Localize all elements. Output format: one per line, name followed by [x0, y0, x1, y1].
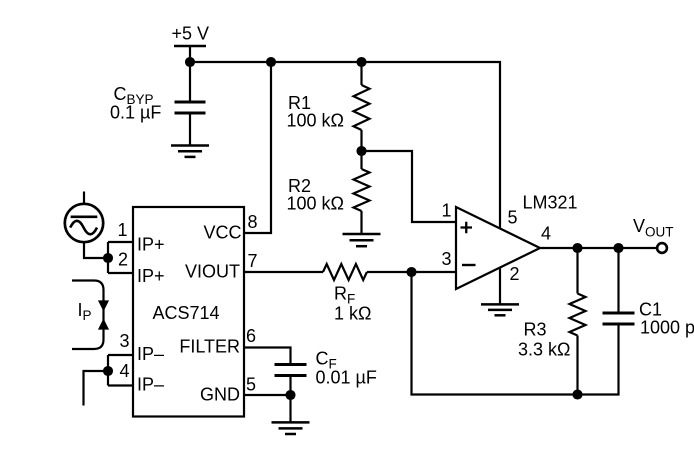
svg-text:5: 5 — [246, 375, 256, 395]
svg-text:IP–: IP– — [137, 344, 164, 364]
wire op-amp V- to ground — [499, 268, 501, 305]
node junction dot rail at R1 — [356, 57, 366, 67]
svg-text:3: 3 — [441, 249, 451, 269]
svg-text:7: 7 — [248, 251, 258, 271]
svg-text:3: 3 — [119, 331, 129, 351]
wire source to IP+ pins — [84, 242, 108, 258]
svg-text:C1: C1 — [639, 300, 662, 320]
wire IP- bus — [107, 355, 109, 386]
wire feedback rail from inverting node to C1 — [412, 272, 619, 395]
op-amp + input marker — [461, 222, 473, 234]
op-amp - input marker — [462, 264, 476, 266]
svg-text:ACS714: ACS714 — [153, 303, 220, 323]
ground below R2 — [343, 234, 381, 246]
IC ACS714 body — [133, 207, 244, 417]
ground below C_BYP — [171, 146, 209, 157]
resistor R3 — [570, 294, 586, 336]
resistor R1 — [354, 85, 370, 130]
node junction dot R1/R2 midpoint — [356, 146, 366, 156]
node junction dot IP+ tie — [103, 253, 113, 263]
wire RF to inverting node — [367, 271, 456, 273]
svg-text:1: 1 — [441, 201, 451, 221]
capacitor C_BYP — [175, 102, 206, 113]
node junction dot output/C1 — [613, 243, 623, 253]
wire output to R3 — [576, 248, 578, 294]
svg-text:0.1 µF: 0.1 µF — [110, 103, 161, 123]
svg-text:8: 8 — [248, 212, 258, 232]
wire rail to C_BYP top plate — [189, 62, 191, 101]
node junction dot rail at C_BYP — [185, 57, 195, 67]
svg-text:4: 4 — [541, 224, 551, 244]
wire I_P loop — [72, 281, 104, 350]
source symbol circle — [65, 204, 103, 242]
op-amp U1 LM321 triangle — [456, 207, 540, 289]
wire GND to ground symbol — [289, 395, 291, 422]
node VOUT terminal — [657, 243, 667, 253]
wire op-amp output to VOUT terminal — [540, 247, 657, 249]
wire C_BYP bottom plate to ground — [189, 115, 191, 146]
wire IP- return stub — [84, 371, 109, 406]
wire pin 7 VIOUT to RF — [244, 271, 323, 273]
svg-text:100 kΩ: 100 kΩ — [287, 111, 345, 131]
node junction dot IP- tie — [103, 366, 113, 376]
resistor RF — [323, 264, 367, 280]
svg-text:IP+: IP+ — [137, 235, 165, 255]
svg-text:R3: R3 — [524, 320, 547, 340]
source internal bar — [71, 215, 98, 218]
wire pin 2 — [108, 272, 133, 274]
svg-text:1: 1 — [117, 220, 127, 240]
svg-text:FILTER: FILTER — [179, 337, 240, 357]
node junction dot GND/CF — [285, 390, 295, 400]
node +5V supply bar — [174, 45, 206, 48]
node junction dot output/R3 — [572, 243, 582, 253]
wire stub above source — [83, 192, 85, 205]
svg-text:1 kΩ: 1 kΩ — [334, 304, 371, 324]
arrow I_P up — [99, 319, 109, 329]
svg-text:GND: GND — [200, 385, 240, 405]
svg-text:6: 6 — [246, 326, 256, 346]
svg-text:100 kΩ: 100 kΩ — [287, 194, 345, 214]
wire midpoint to R2 — [360, 151, 362, 169]
svg-text:2: 2 — [510, 264, 520, 284]
wire R3 to feedback rail — [576, 336, 578, 395]
svg-text:+5 V: +5 V — [172, 24, 210, 44]
svg-text:5: 5 — [508, 208, 518, 228]
svg-text:1000 pF: 1000 pF — [640, 318, 694, 338]
wire supply bar to rail — [189, 46, 191, 62]
svg-text:IP–: IP– — [137, 375, 164, 395]
capacitor CF — [275, 365, 307, 376]
ground below ACS714 GND — [272, 422, 310, 434]
svg-text:2: 2 — [118, 250, 128, 270]
node junction dot inverting input — [406, 267, 416, 277]
node junction dot R3/feedback — [572, 389, 582, 399]
source internal sine — [70, 221, 97, 235]
svg-text:IP+: IP+ — [137, 266, 165, 286]
wire pin 5 GND — [244, 394, 291, 396]
wire pin 1 — [108, 241, 133, 243]
wire VCC pin 8 to rail — [244, 62, 271, 233]
svg-text:LM321: LM321 — [523, 193, 578, 213]
ground below op-amp — [481, 304, 519, 315]
node junction dot rail at VCC drop — [266, 57, 276, 67]
resistor R2 — [354, 169, 370, 211]
wire midpoint to op-amp + input — [362, 151, 457, 222]
wire +5V rail across top to op-amp V+ pin — [190, 62, 500, 229]
wire R1 to midpoint — [360, 130, 362, 151]
wire pin 3 — [108, 354, 133, 356]
arrow I_P down — [99, 301, 109, 311]
wire rail to R1 — [360, 62, 362, 85]
wire pin 4 — [108, 384, 133, 386]
wire CF to GND wire — [289, 377, 291, 395]
wire pin 6 FILTER to CF — [244, 348, 291, 364]
wire IP+ bus — [107, 242, 109, 273]
capacitor C1 — [603, 313, 635, 324]
svg-text:4: 4 — [119, 361, 129, 381]
wire output to C1 — [617, 248, 619, 312]
svg-text:0.01 µF: 0.01 µF — [316, 368, 377, 388]
svg-text:VCC: VCC — [203, 223, 241, 243]
svg-text:3.3 kΩ: 3.3 kΩ — [518, 340, 570, 360]
wire R2 to ground — [360, 211, 362, 233]
svg-text:VIOUT: VIOUT — [185, 262, 240, 282]
